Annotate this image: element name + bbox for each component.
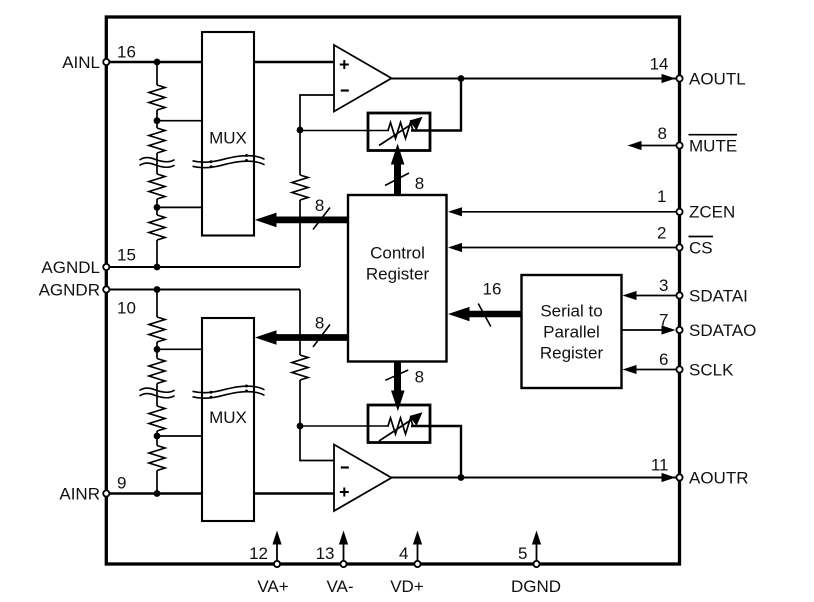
junction dot tap2: [154, 204, 161, 211]
svg-text:AOUTR: AOUTR: [689, 468, 749, 487]
svg-text:ZCEN: ZCEN: [689, 203, 735, 222]
pin 11 AOUTR: [651, 456, 749, 488]
wire left ladder column bottom channel: [156, 290, 158, 494]
wire tap stub to MUX2 lower: [157, 435, 203, 437]
svg-text:10: 10: [117, 299, 136, 318]
wire MUTE: [635, 145, 676, 147]
svg-text:Serial to: Serial to: [540, 302, 602, 321]
resistor R9 feedback top: [292, 175, 308, 200]
resistor ladder top R3: [149, 174, 165, 199]
pin 5 DGND: [511, 531, 561, 597]
pin 4 VD+: [390, 531, 424, 597]
wire op-amp U1 output to AOUTL: [391, 78, 676, 80]
svg-text:SDATAO: SDATAO: [689, 321, 756, 340]
svg-text:MUX: MUX: [209, 408, 247, 427]
svg-text:MUTE: MUTE: [689, 137, 737, 156]
pin 10 AGNDR: [39, 281, 136, 318]
svg-text:AINL: AINL: [62, 53, 100, 72]
bus 16 serial to control: [448, 280, 522, 327]
wire bottom gain cell right lead: [411, 426, 461, 478]
svg-text:12: 12: [249, 544, 268, 563]
wire SDATAO: [622, 329, 669, 331]
chip outer border: [106, 17, 679, 564]
resistor R10 feedback bottom: [292, 355, 308, 380]
wire op-amp U2 output to AOUTR: [391, 477, 676, 479]
svg-text:11: 11: [651, 456, 669, 475]
variable gain cell VR1: [368, 113, 430, 151]
svg-text:16: 16: [117, 43, 136, 62]
arrowhead AOUTR: [662, 473, 676, 482]
junction dot tap3: [154, 346, 161, 353]
junction dot tap1: [154, 117, 161, 124]
svg-text:8: 8: [315, 313, 324, 332]
svg-text:CS: CS: [689, 238, 713, 257]
arrowhead ZCEN: [448, 207, 462, 216]
wire top gain cell right lead: [411, 79, 461, 131]
junction dot feedback node top: [297, 127, 304, 134]
svg-text:8: 8: [415, 174, 424, 193]
wire CS: [455, 247, 676, 249]
svg-text:8: 8: [415, 367, 424, 386]
arrowhead AOUTL: [662, 74, 676, 83]
junction dot output node bottom: [458, 474, 465, 481]
arrowhead SDATAO: [662, 325, 676, 334]
pin 3 SDATAI: [659, 276, 748, 305]
wire SCLK: [628, 369, 676, 371]
svg-text:Register: Register: [540, 344, 604, 363]
resistor ladder bottom R8: [149, 446, 165, 471]
pin 6 SCLK: [659, 350, 734, 379]
wire tap stub to MUX1 upper: [157, 120, 203, 122]
svg-text:Register: Register: [366, 264, 430, 283]
junction dot AGNDL ladder: [154, 264, 161, 271]
arrowhead CS: [448, 243, 462, 252]
svg-text:15: 15: [117, 246, 136, 265]
wire tap stub to MUX1 lower: [157, 206, 203, 208]
pin 12 VA+: [249, 531, 289, 597]
pin 15 AGNDL: [41, 246, 136, 278]
svg-text:8: 8: [315, 196, 324, 215]
arrowhead SDATAI: [623, 291, 637, 300]
pin 14 AOUTL: [650, 55, 746, 89]
break squiggle ladder bottom: [140, 388, 175, 398]
resistor ladder top R2: [149, 128, 165, 153]
resistor ladder bottom R6: [149, 359, 165, 384]
bus 8 control to VR1: [385, 144, 424, 196]
svg-text:7: 7: [659, 311, 668, 330]
pin 9 AINR: [59, 474, 126, 504]
svg-text:AGNDR: AGNDR: [39, 281, 100, 300]
svg-text:8: 8: [658, 124, 667, 143]
break squiggle MUX1: [193, 154, 265, 168]
wire bottom gain cell left lead: [300, 425, 389, 427]
pin 1 ZCEN: [657, 187, 735, 222]
svg-text:DGND: DGND: [511, 577, 561, 596]
wire AINR input line: [108, 492, 334, 494]
resistor ladder top R1: [149, 85, 165, 110]
junction dot tap4: [154, 433, 161, 440]
wire SDATAI: [628, 295, 676, 297]
svg-text:SCLK: SCLK: [689, 360, 734, 379]
junction dot AINL ladder: [154, 59, 161, 66]
variable gain cell VR2: [368, 405, 430, 443]
svg-text:SDATAI: SDATAI: [689, 286, 748, 305]
MUX block 2: [202, 318, 254, 521]
svg-text:16: 16: [483, 280, 502, 299]
resistor ladder bottom R5: [149, 317, 165, 342]
resistor ladder bottom R7: [149, 406, 165, 431]
svg-text:VA+: VA+: [257, 577, 288, 596]
pin 16 AINL: [62, 43, 136, 72]
svg-text:MUX: MUX: [209, 129, 247, 148]
svg-text:VD+: VD+: [390, 577, 424, 596]
bus 8 control to VR2: [385, 362, 424, 412]
pin 8 MUTE: [658, 124, 738, 156]
op-amp U2: [334, 445, 392, 512]
svg-text:3: 3: [659, 276, 668, 295]
serial to parallel register block U4: [522, 275, 622, 388]
svg-text:VA-: VA-: [326, 577, 353, 596]
junction dot AGNDR ladder: [154, 286, 161, 293]
resistor ladder top R4: [149, 215, 165, 240]
pin 7 SDATAO: [659, 311, 756, 340]
MUX block 1: [202, 32, 254, 236]
wire tap stub to MUX2 upper: [157, 348, 203, 350]
svg-text:AGNDL: AGNDL: [41, 258, 100, 277]
junction dot feedback node bottom: [297, 423, 304, 430]
wire top gain cell left lead: [300, 130, 389, 132]
bus 8 control to MUX1: [255, 196, 348, 230]
svg-text:9: 9: [117, 474, 126, 493]
wire left ladder column top channel: [156, 62, 158, 267]
wire AGNDR line: [108, 289, 300, 291]
pin 2 CS: [657, 224, 713, 258]
svg-text:AOUTL: AOUTL: [689, 69, 746, 88]
svg-text:6: 6: [659, 350, 668, 369]
break squiggle MUX2: [193, 385, 265, 399]
wire op-amp U1 inverting input: [300, 95, 334, 130]
svg-text:1: 1: [657, 187, 666, 206]
op-amp U1: [334, 45, 392, 112]
junction dot AINR ladder: [154, 490, 161, 497]
pin 13 VA-: [316, 531, 354, 597]
wire ZCEN: [455, 211, 676, 213]
svg-text:2: 2: [657, 224, 666, 243]
svg-text:Control: Control: [370, 243, 425, 262]
wire feedback column bottom: [299, 290, 301, 427]
arrowhead MUTE: [628, 141, 642, 150]
arrowhead SCLK: [623, 365, 637, 374]
wire AGNDL line: [108, 266, 300, 268]
svg-text:AINR: AINR: [59, 484, 100, 503]
bus 8 control to MUX2: [255, 313, 348, 347]
svg-text:Parallel: Parallel: [543, 323, 600, 342]
wire op-amp U2 inverting input: [300, 426, 334, 461]
junction dot output node top: [458, 75, 465, 82]
svg-text:14: 14: [650, 55, 669, 74]
svg-text:13: 13: [316, 544, 335, 563]
wire feedback column top with node: [299, 130, 301, 267]
break squiggle ladder top: [140, 158, 175, 168]
wire AINL input line: [108, 61, 334, 63]
control register block U3: [348, 195, 447, 362]
svg-text:4: 4: [399, 544, 408, 563]
svg-text:5: 5: [518, 544, 527, 563]
